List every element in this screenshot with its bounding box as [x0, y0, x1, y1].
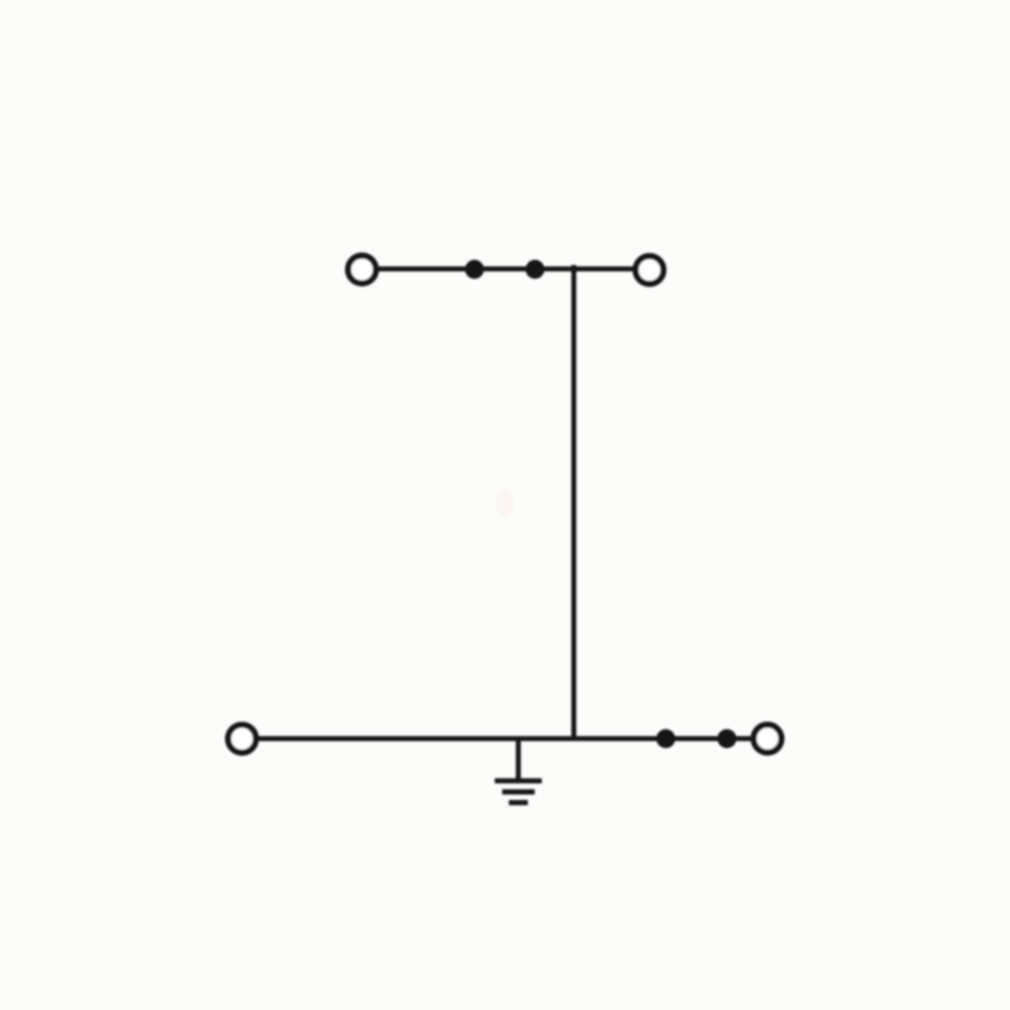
ground symbol	[495, 781, 542, 803]
junction dot upper deck right	[526, 260, 545, 279]
wire: ground stub	[516, 739, 521, 781]
wire: vertical link between decks	[571, 265, 576, 741]
junction dot lower deck right	[717, 729, 736, 748]
terminal circle upper-right	[636, 256, 664, 284]
junction dot upper deck left	[465, 260, 484, 279]
terminal circle lower-left	[228, 725, 256, 753]
terminal circle lower-right	[754, 725, 782, 753]
wire: upper deck bus	[378, 266, 635, 271]
junction dot lower deck left	[656, 729, 675, 748]
wire: lower deck bus	[258, 736, 752, 741]
terminal circle upper-left	[348, 256, 376, 284]
